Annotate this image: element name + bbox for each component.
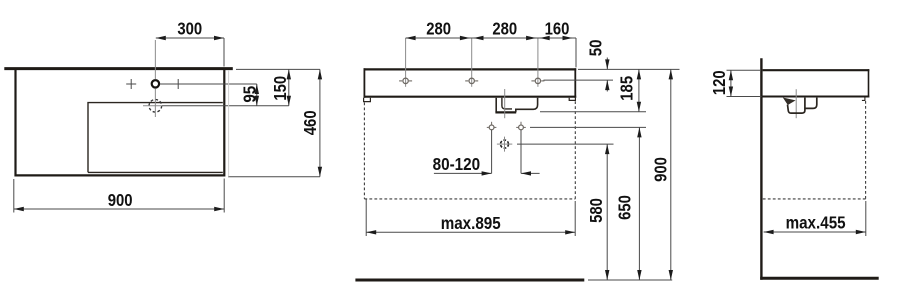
svg-text:120: 120 [709,70,729,95]
svg-text:max.455: max.455 [786,213,846,233]
svg-text:900: 900 [651,157,671,182]
svg-text:185: 185 [617,76,637,101]
svg-text:460: 460 [300,110,320,135]
svg-text:900: 900 [108,190,133,210]
svg-text:280: 280 [492,19,517,39]
svg-text:150: 150 [270,76,290,101]
svg-text:max.895: max.895 [441,213,501,233]
svg-text:300: 300 [177,19,202,39]
svg-text:50: 50 [586,40,606,57]
svg-text:650: 650 [615,195,635,220]
svg-text:580: 580 [586,198,606,223]
svg-text:80-120: 80-120 [433,154,481,174]
svg-text:280: 280 [426,19,451,39]
svg-text:160: 160 [545,19,570,39]
svg-text:95: 95 [240,86,260,103]
